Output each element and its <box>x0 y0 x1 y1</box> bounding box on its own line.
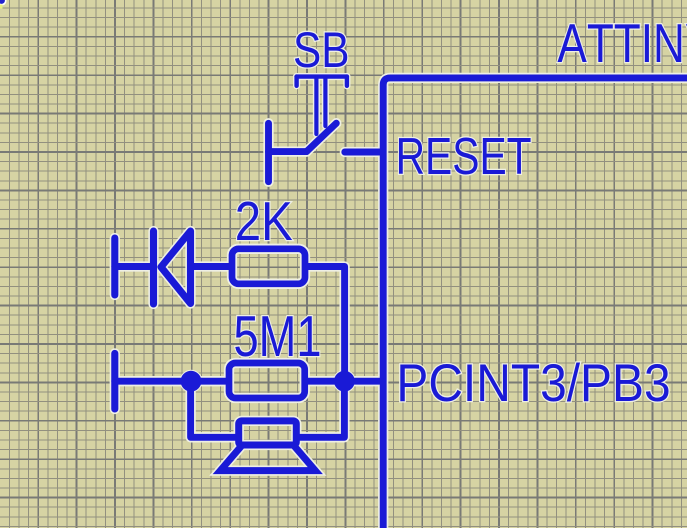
wire R1 to node, corner down <box>307 267 345 382</box>
svg-text:SB: SB <box>293 22 350 78</box>
push button SB : left contact wire <box>269 148 307 155</box>
speaker LS1 cone <box>220 446 315 471</box>
terminal post (diode row) <box>111 238 118 295</box>
resistor R2 5M1 body <box>229 363 305 398</box>
wire R2 to chip pin PCINT3/PB3 <box>306 378 381 385</box>
junction node A <box>181 371 202 392</box>
diode D1 cathode bar <box>150 231 157 304</box>
white halo layer <box>115 77 687 528</box>
wire terminal to R2 <box>115 378 227 385</box>
wire node B down to speaker right <box>298 381 344 437</box>
chip U1 box edge (ATTINY) <box>383 78 687 528</box>
junction node B <box>334 371 355 392</box>
push button SB : blade <box>307 123 337 151</box>
wire node A down to speaker left <box>191 381 237 437</box>
svg-text:2K: 2K <box>235 191 293 252</box>
push button SB : left post <box>265 123 272 181</box>
push button SB : actuator bar <box>297 77 347 86</box>
resistor R1 2K body <box>232 249 305 284</box>
blue artwork <box>115 77 687 528</box>
push button SB : plunger <box>316 78 325 134</box>
speaker LS1 body <box>239 421 297 445</box>
svg-text:ATTINY13: ATTINY13 <box>557 13 687 74</box>
svg-text:RESET: RESET <box>396 128 532 186</box>
terminal post (5M1 row) <box>111 353 118 409</box>
wire diode to R1 <box>191 263 230 270</box>
cursor artifact top-left <box>0 0 7 9</box>
svg-text:PCINT3/PB3: PCINT3/PB3 <box>396 354 670 413</box>
pin RESET wire <box>345 149 381 156</box>
diode D1 triangle <box>161 231 191 304</box>
wire terminal to diode <box>115 263 154 270</box>
svg-text:5M1: 5M1 <box>234 305 322 369</box>
